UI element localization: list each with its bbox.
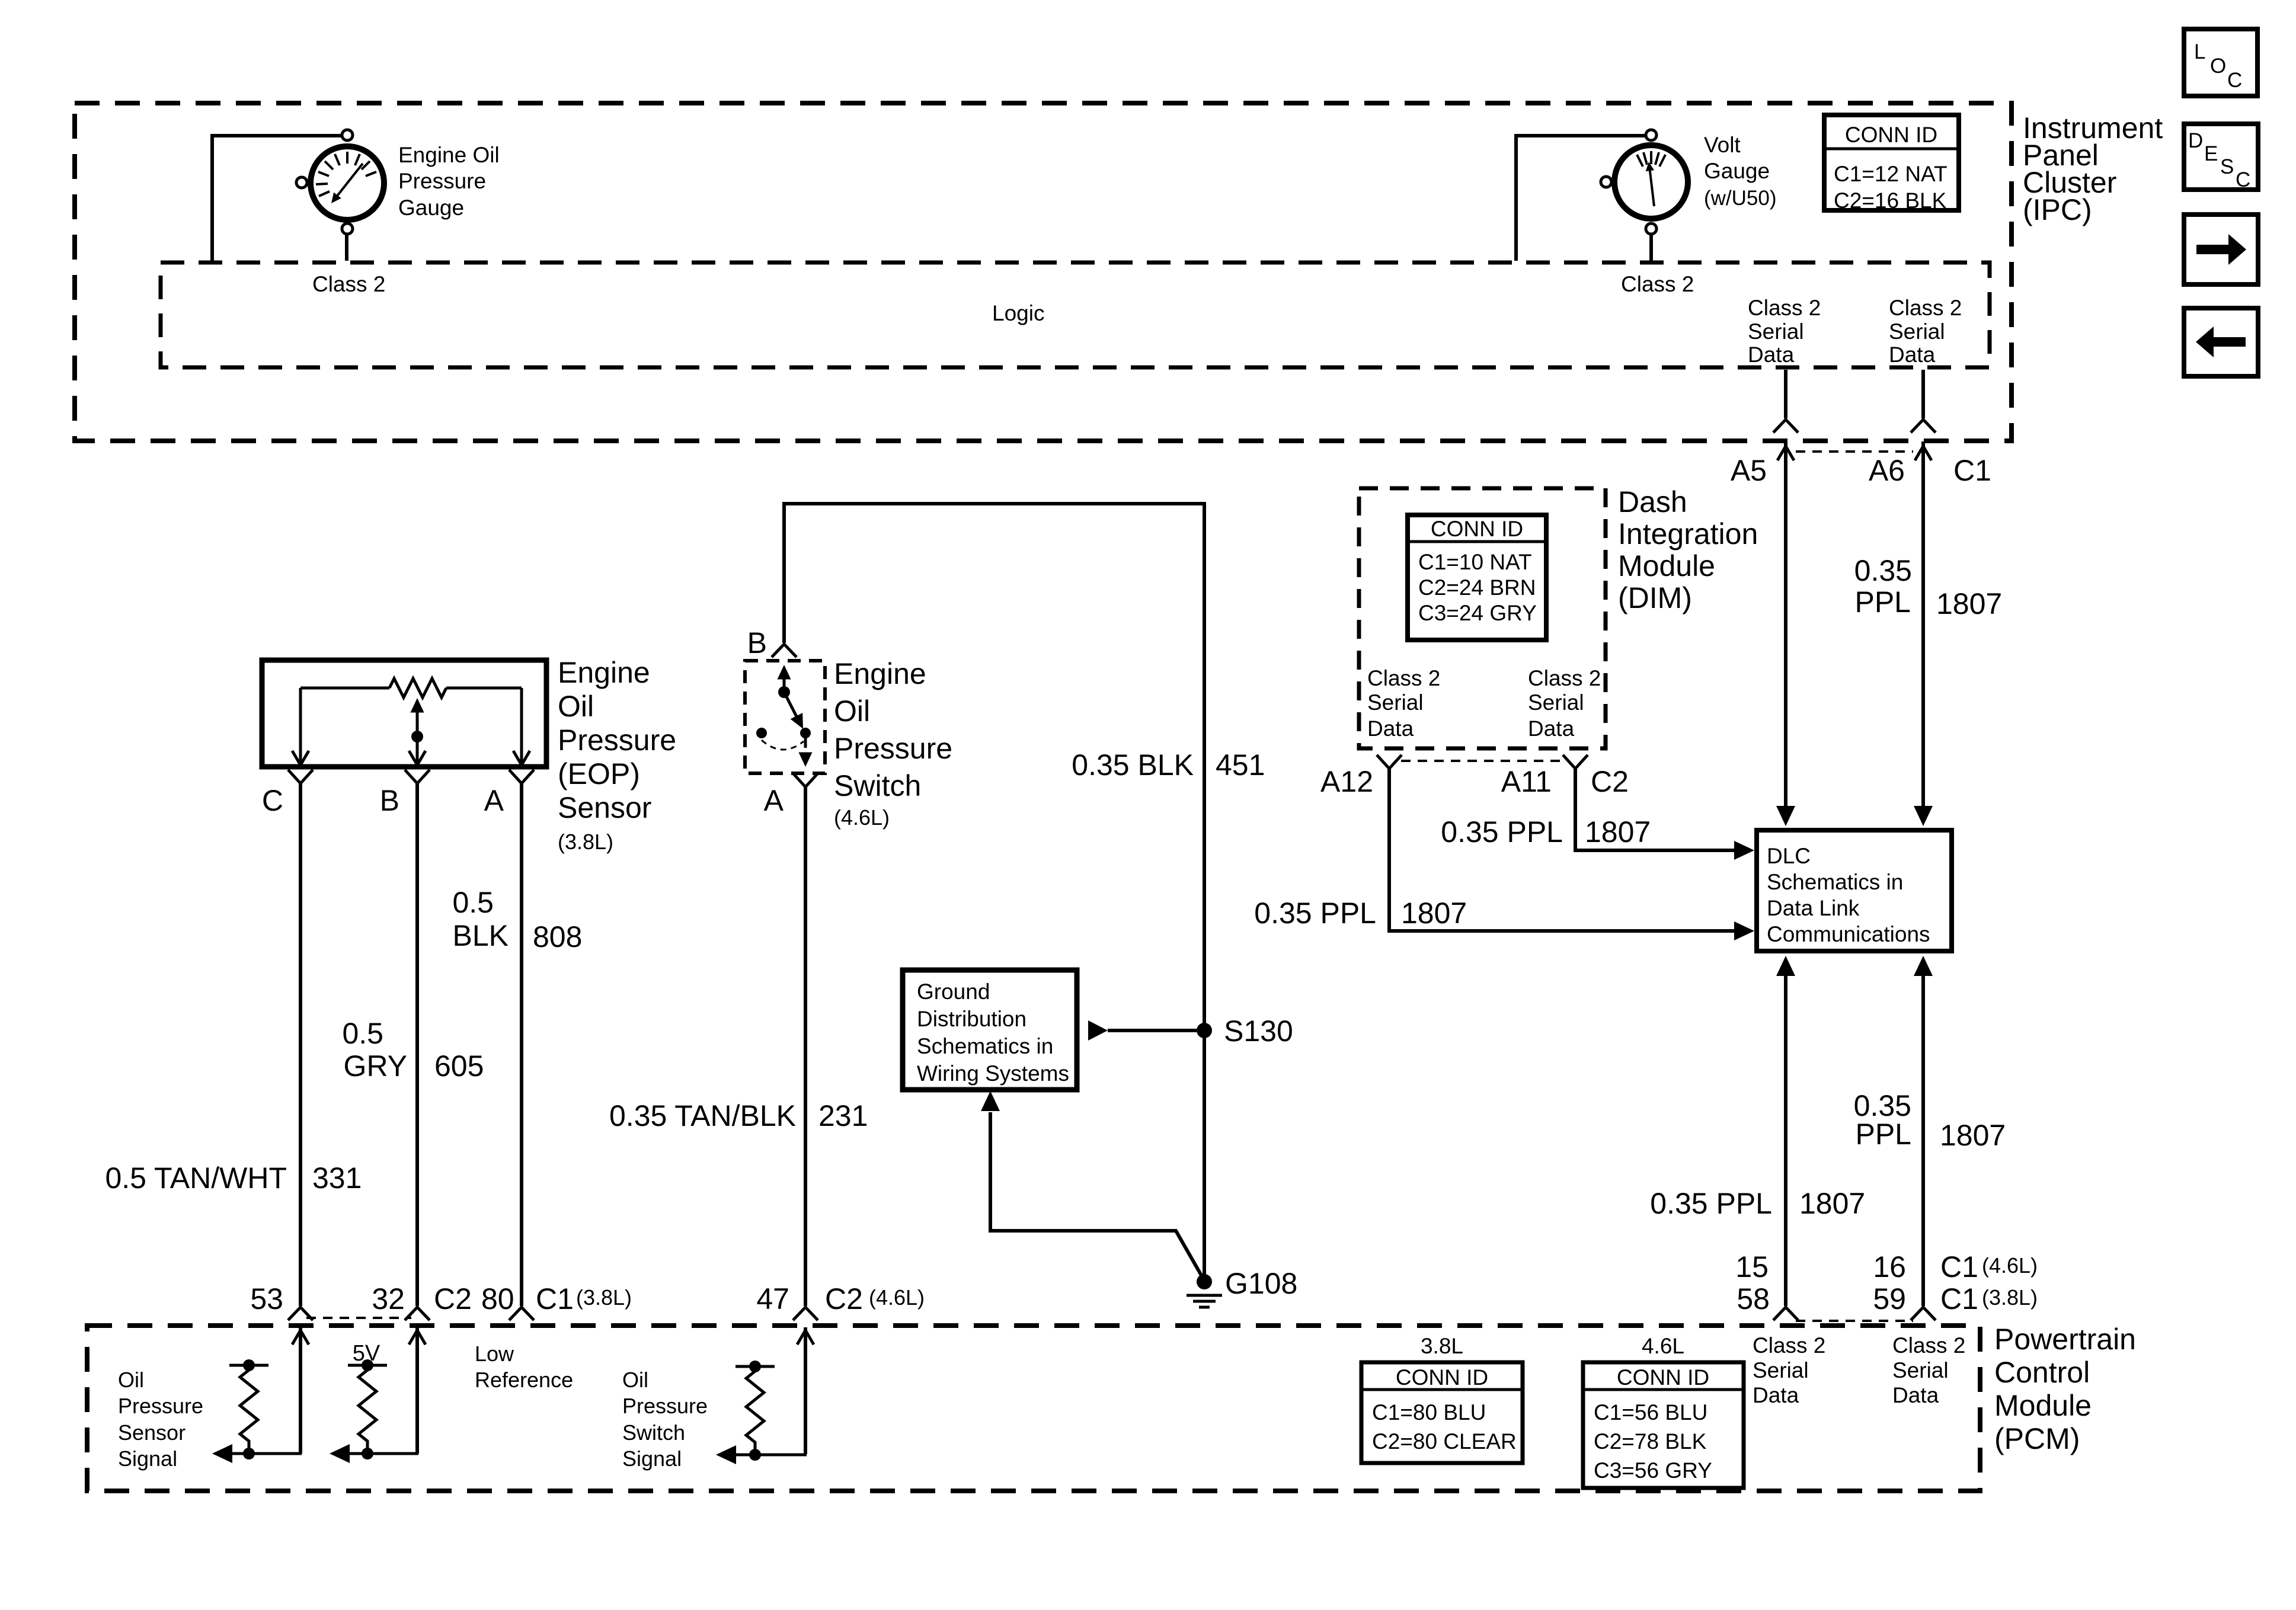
svg-text:Volt: Volt [1704, 133, 1741, 157]
svg-text:(4.6L): (4.6L) [869, 1285, 925, 1310]
svg-text:C1: C1 [1940, 1282, 1978, 1315]
svg-text:Data: Data [1889, 343, 1936, 367]
svg-text:Class 2: Class 2 [1892, 1333, 1965, 1358]
svg-text:Gauge: Gauge [398, 196, 464, 220]
svg-text:(PCM): (PCM) [1994, 1422, 2080, 1455]
svg-text:(4.6L): (4.6L) [1982, 1253, 2038, 1278]
svg-text:Dash: Dash [1618, 485, 1687, 518]
svg-text:605: 605 [434, 1049, 484, 1083]
svg-text:Serial: Serial [1889, 319, 1945, 344]
svg-text:0.5: 0.5 [342, 1017, 383, 1050]
svg-text:47: 47 [756, 1282, 789, 1315]
svg-text:Ground: Ground [917, 980, 990, 1004]
svg-text:B: B [747, 626, 767, 660]
svg-text:Module: Module [1618, 549, 1715, 582]
svg-text:C1=10 NAT: C1=10 NAT [1418, 550, 1532, 574]
svg-text:(4.6L): (4.6L) [834, 805, 890, 830]
svg-text:16: 16 [1873, 1250, 1906, 1283]
svg-text:Engine Oil: Engine Oil [398, 143, 500, 167]
svg-text:Engine: Engine [834, 657, 926, 690]
svg-text:GRY: GRY [344, 1049, 407, 1083]
svg-text:Pressure: Pressure [118, 1394, 203, 1418]
svg-text:231: 231 [818, 1099, 868, 1132]
svg-text:A11: A11 [1501, 765, 1552, 798]
svg-text:1807: 1807 [1936, 587, 2002, 620]
svg-text:A12: A12 [1320, 765, 1373, 798]
svg-text:5V: 5V [353, 1341, 380, 1366]
svg-text:Engine: Engine [558, 656, 650, 689]
svg-text:G108: G108 [1225, 1267, 1297, 1300]
svg-text:C3=24 GRY: C3=24 GRY [1418, 601, 1537, 625]
svg-text:B: B [380, 784, 399, 817]
svg-text:Class 2: Class 2 [1889, 296, 1962, 320]
svg-text:Wiring Systems: Wiring Systems [917, 1061, 1069, 1086]
svg-text:CONN ID: CONN ID [1845, 123, 1937, 147]
svg-text:Gauge: Gauge [1704, 159, 1770, 183]
svg-text:PPL: PPL [1854, 585, 1911, 619]
svg-text:Oil: Oil [622, 1368, 648, 1392]
svg-text:C: C [2227, 69, 2242, 92]
svg-text:Class 2: Class 2 [1528, 666, 1601, 690]
svg-text:C1=80 BLU: C1=80 BLU [1372, 1400, 1486, 1425]
svg-text:A5: A5 [1731, 454, 1767, 487]
svg-text:C2: C2 [825, 1282, 863, 1315]
svg-text:Communications: Communications [1767, 922, 1930, 946]
svg-text:(DIM): (DIM) [1618, 581, 1692, 614]
svg-text:Signal: Signal [118, 1446, 177, 1471]
svg-text:Pressure: Pressure [558, 724, 676, 757]
svg-text:C3=56 GRY: C3=56 GRY [1594, 1458, 1712, 1483]
svg-text:C: C [2236, 168, 2250, 191]
svg-text:CONN ID: CONN ID [1396, 1365, 1488, 1390]
svg-text:(w/U50): (w/U50) [1704, 187, 1777, 210]
svg-text:Class 2: Class 2 [1753, 1333, 1825, 1358]
svg-text:0.35 PPL: 0.35 PPL [1254, 897, 1376, 930]
svg-text:Module: Module [1994, 1389, 2092, 1422]
svg-text:C2: C2 [434, 1282, 472, 1315]
svg-text:Pressure: Pressure [834, 732, 952, 765]
svg-text:C: C [262, 784, 283, 817]
svg-text:C2=16 BLK: C2=16 BLK [1834, 188, 1947, 213]
svg-text:Data: Data [1753, 1383, 1799, 1407]
svg-text:Pressure: Pressure [622, 1394, 708, 1418]
svg-text:L: L [2194, 40, 2205, 63]
svg-text:(3.8L): (3.8L) [1982, 1285, 2038, 1310]
svg-text:Reference: Reference [475, 1368, 573, 1392]
svg-text:C2=80 CLEAR: C2=80 CLEAR [1372, 1429, 1517, 1454]
svg-text:Class 2: Class 2 [1367, 666, 1440, 690]
svg-text:0.35 TAN/BLK: 0.35 TAN/BLK [609, 1099, 796, 1132]
svg-text:C2=78 BLK: C2=78 BLK [1594, 1429, 1707, 1454]
svg-text:BLK: BLK [452, 919, 509, 952]
svg-text:0.35: 0.35 [1854, 554, 1912, 587]
svg-text:Oil: Oil [834, 694, 870, 728]
svg-text:Data: Data [1367, 716, 1414, 741]
svg-text:Data: Data [1748, 343, 1795, 367]
svg-text:0.35 PPL: 0.35 PPL [1441, 815, 1563, 849]
svg-text:S: S [2220, 155, 2234, 178]
svg-text:451: 451 [1216, 748, 1265, 782]
svg-text:Distribution: Distribution [917, 1007, 1027, 1031]
svg-text:15: 15 [1735, 1250, 1769, 1283]
svg-text:0.5 TAN/WHT: 0.5 TAN/WHT [105, 1161, 287, 1195]
svg-text:Switch: Switch [622, 1420, 685, 1445]
svg-text:808: 808 [533, 920, 582, 953]
svg-text:Logic: Logic [992, 301, 1044, 325]
svg-text:C2=24 BRN: C2=24 BRN [1418, 575, 1536, 600]
svg-text:(EOP): (EOP) [558, 757, 640, 790]
svg-text:Serial: Serial [1748, 319, 1804, 344]
svg-text:C2: C2 [1591, 765, 1629, 798]
svg-text:Class 2: Class 2 [1748, 296, 1821, 320]
svg-text:CONN ID: CONN ID [1431, 517, 1523, 541]
svg-text:Oil: Oil [558, 690, 594, 723]
svg-text:3.8L: 3.8L [1421, 1334, 1463, 1358]
svg-text:Data: Data [1528, 716, 1575, 741]
svg-text:Oil: Oil [118, 1368, 144, 1392]
svg-text:Schematics in: Schematics in [917, 1034, 1053, 1058]
svg-text:O: O [2210, 55, 2226, 78]
svg-text:D: D [2188, 129, 2203, 152]
svg-text:Switch: Switch [834, 769, 921, 802]
svg-text:58: 58 [1737, 1282, 1770, 1315]
svg-text:1807: 1807 [1940, 1119, 2006, 1152]
svg-text:(3.8L): (3.8L) [576, 1285, 632, 1310]
svg-text:Sensor: Sensor [558, 791, 651, 824]
svg-text:A: A [484, 784, 504, 817]
svg-text:A: A [764, 784, 784, 817]
svg-text:Serial: Serial [1528, 690, 1584, 715]
svg-text:0.35 PPL: 0.35 PPL [1650, 1187, 1772, 1220]
svg-text:1807: 1807 [1799, 1187, 1865, 1220]
svg-text:PPL: PPL [1855, 1118, 1911, 1151]
svg-text:DLC: DLC [1767, 844, 1811, 868]
svg-text:Integration: Integration [1618, 517, 1758, 550]
svg-text:C1=56 BLU: C1=56 BLU [1594, 1400, 1707, 1425]
svg-text:1807: 1807 [1401, 897, 1467, 930]
svg-text:Low: Low [475, 1342, 514, 1366]
svg-text:1807: 1807 [1585, 815, 1651, 849]
svg-text:4.6L: 4.6L [1642, 1334, 1684, 1358]
svg-text:(IPC): (IPC) [2023, 193, 2092, 226]
svg-text:E: E [2204, 142, 2218, 165]
svg-text:C1: C1 [536, 1282, 574, 1315]
svg-text:Serial: Serial [1892, 1358, 1949, 1382]
svg-text:Powertrain: Powertrain [1994, 1323, 2136, 1356]
svg-text:53: 53 [250, 1282, 283, 1315]
svg-text:Signal: Signal [622, 1446, 682, 1471]
svg-text:Class 2: Class 2 [1621, 272, 1694, 296]
svg-text:Schematics in: Schematics in [1767, 870, 1903, 894]
svg-text:80: 80 [481, 1282, 514, 1315]
svg-text:Serial: Serial [1753, 1358, 1809, 1382]
svg-text:(3.8L): (3.8L) [558, 830, 613, 854]
svg-text:A6: A6 [1869, 454, 1905, 487]
svg-text:CONN ID: CONN ID [1617, 1365, 1709, 1390]
svg-text:Pressure: Pressure [398, 169, 486, 193]
svg-text:S130: S130 [1224, 1014, 1293, 1048]
svg-text:C1: C1 [1953, 454, 1991, 487]
svg-text:32: 32 [372, 1282, 405, 1315]
svg-text:C1: C1 [1940, 1250, 1978, 1283]
svg-text:Control: Control [1994, 1356, 2090, 1389]
svg-text:Data: Data [1892, 1383, 1939, 1407]
svg-text:Data Link: Data Link [1767, 896, 1860, 920]
svg-text:Serial: Serial [1367, 690, 1424, 715]
svg-text:59: 59 [1873, 1282, 1906, 1315]
svg-text:0.35 BLK: 0.35 BLK [1072, 748, 1194, 782]
svg-text:Class 2: Class 2 [312, 272, 385, 296]
svg-text:C1=12 NAT: C1=12 NAT [1834, 162, 1948, 186]
svg-text:331: 331 [312, 1161, 362, 1195]
svg-text:Sensor: Sensor [118, 1420, 186, 1445]
svg-text:0.5: 0.5 [452, 886, 494, 919]
